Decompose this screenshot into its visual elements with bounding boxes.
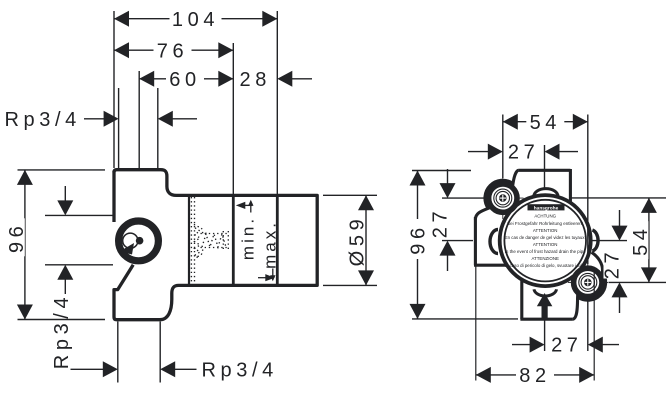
- dim 28 arrow right: [277, 71, 312, 87]
- hansgrohe label text: [534, 205, 559, 211]
- dim 27L text: [429, 207, 451, 238]
- dim 27B text: [551, 335, 582, 357]
- dim 27R text: [602, 248, 624, 279]
- max depth division line: [276, 197, 279, 285]
- svg-text:Rp3/4: Rp3/4: [5, 109, 81, 131]
- max down arrow: [270, 269, 275, 282]
- dim 54 top ext right: [587, 115, 589, 265]
- dim 104 line: [114, 11, 277, 27]
- port extension line bottom left: [117, 322, 119, 383]
- hidden spindle end bar left: [222, 231, 224, 250]
- dim 82 text: [516, 365, 554, 387]
- dim 82 ext left: [475, 266, 477, 381]
- svg-text:27: 27: [508, 142, 539, 164]
- left view body outline: [114, 170, 317, 320]
- hansgrohe label plate: [528, 204, 565, 210]
- orientation arrow: [538, 294, 551, 318]
- front body lower-left stub: [474, 264, 508, 267]
- port dim arrow lower: [57, 265, 73, 294]
- Rp3/4 left leader arrow: [71, 361, 118, 377]
- hidden spindle top rail: [201, 233, 228, 235]
- dim 27 top text: [508, 142, 539, 164]
- cover outer circle: [500, 195, 591, 286]
- dim 27B ext left: [544, 321, 546, 352]
- svg-text:96: 96: [407, 223, 429, 254]
- dim 27B ext right: [587, 301, 589, 351]
- dim O59 extension line top: [323, 194, 377, 196]
- front body top edge: [519, 169, 571, 172]
- svg-text:27: 27: [429, 207, 451, 238]
- right port crescent: [592, 230, 598, 251]
- dim 54 top text: [526, 112, 564, 134]
- max arrow: [258, 274, 275, 281]
- dim 54R text: [630, 221, 652, 259]
- svg-text:76: 76: [157, 40, 188, 62]
- valve spindle boss ring: [119, 221, 159, 261]
- hidden spindle end bar right: [227, 231, 229, 250]
- svg-text:96: 96: [6, 222, 28, 253]
- front body left edge: [474, 217, 477, 265]
- svg-text:104: 104: [172, 9, 219, 31]
- svg-text:54: 54: [630, 224, 652, 255]
- left port crescent: [490, 230, 498, 254]
- dim O59 extension line bottom: [323, 284, 377, 286]
- svg-text:ACHTUNG: ACHTUNG: [534, 214, 556, 219]
- dim 82 ext right: [593, 268, 595, 381]
- svg-text:Ø59: Ø59: [347, 215, 369, 267]
- svg-text:En cas de danger de gel videz: En cas de danger de gel videz les tuyaux…: [505, 235, 586, 240]
- svg-text:54: 54: [530, 112, 561, 134]
- port dim arrow upper: [57, 186, 73, 215]
- Rp3/4 top label: [5, 109, 81, 131]
- dotted plaster line a: [190, 197, 192, 284]
- dim 27L ext mid: [442, 240, 473, 242]
- hidden spindle thread zigzag: [202, 234, 226, 247]
- dim 96 extension line bottom: [18, 319, 106, 321]
- max label: [260, 220, 279, 269]
- port extension line top right: [157, 88, 159, 168]
- dim O59 line: [358, 195, 374, 285]
- hidden spindle lower hook: [198, 248, 203, 257]
- svg-text:ATTENZIONE: ATTENZIONE: [531, 256, 559, 261]
- dim 54 top ext left: [502, 115, 504, 179]
- dim 104 text: [170, 9, 222, 31]
- dim 96f line: [410, 171, 426, 319]
- port extension line top left: [118, 88, 120, 168]
- dim O59 text: [347, 215, 369, 267]
- dim 104 extension line right: [276, 11, 278, 195]
- dotted plaster line b: [194, 197, 196, 284]
- svg-text:82: 82: [519, 365, 550, 387]
- dim 27R arrow top: [612, 210, 628, 241]
- front body top-right stub: [569, 169, 572, 204]
- svg-text:60: 60: [169, 69, 200, 91]
- screw boss crosshair top-left: [483, 178, 524, 220]
- dim 54R ext bottom: [609, 281, 666, 283]
- min up arrow: [248, 200, 253, 213]
- min label: [238, 216, 257, 260]
- dim 54 top line: [503, 114, 588, 130]
- Rp3/4 top counter arrow: [158, 111, 197, 127]
- dim 27R arrow bottom: [612, 282, 628, 313]
- front body lower-left vertical stub: [520, 280, 523, 320]
- Rp3/4 top leader arrow: [84, 111, 119, 127]
- min depth division line: [232, 197, 235, 285]
- dim 60 extension line left: [138, 71, 140, 168]
- front body top-left corner wrap: [475, 170, 518, 219]
- Rp3/4 left label: [51, 293, 73, 369]
- dim 96f ext top: [412, 170, 471, 172]
- svg-text:min.: min.: [238, 216, 257, 260]
- svg-text:ATTENTION: ATTENTION: [533, 242, 558, 247]
- valve spindle inner circle: [123, 233, 138, 248]
- hidden spindle bottom rail: [201, 247, 228, 249]
- dim 82 line: [476, 367, 594, 383]
- port extension line mid lower: [45, 264, 113, 266]
- hidden spindle upper hook: [198, 227, 203, 234]
- dim 27R ext mid: [592, 240, 627, 242]
- port extension line bottom right: [159, 322, 161, 383]
- svg-text:In caso di pericolo di gelo, s: In caso di pericolo di gelo, svuotare i …: [505, 263, 586, 268]
- dim 76 extension line right: [232, 43, 234, 194]
- valve spindle tip dot: [136, 237, 144, 245]
- dim 27B arrow right: [588, 337, 619, 353]
- dim 96 extension line top: [18, 169, 106, 171]
- dim 96 line: [17, 170, 33, 320]
- dim 28 text: [239, 69, 270, 91]
- svg-text:In the event of frost hazard d: In the event of frost hazard drain the p…: [505, 249, 587, 254]
- dim 104 extension line left: [113, 11, 115, 168]
- dim 54R ext top: [571, 197, 666, 199]
- Rp3/4 bottom counter arrow: [160, 361, 196, 377]
- min arrow: [236, 202, 253, 209]
- frost warning text block: [505, 214, 587, 268]
- dim 76 text: [154, 40, 192, 62]
- screw boss U1 top-left: [489, 184, 517, 212]
- svg-text:max.: max.: [260, 220, 279, 269]
- dim 76 line: [114, 42, 233, 58]
- dim 27 top arrow left: [468, 144, 503, 160]
- hidden spindle coil zigzag: [195, 224, 201, 259]
- dim 27L ext top: [442, 197, 484, 199]
- svg-text:Rp3/4: Rp3/4: [51, 293, 73, 369]
- dim 27L arrow top: [440, 169, 456, 198]
- svg-text:Bei Frostgefahr Rohrleitung en: Bei Frostgefahr Rohrleitung entleeren!: [507, 221, 583, 226]
- body front face line: [188, 197, 190, 285]
- front body bottom-right corner wrap: [572, 252, 605, 319]
- Rp3/4 bottom label: [202, 359, 278, 381]
- svg-text:Rp3/4: Rp3/4: [202, 359, 278, 381]
- dim 54R line: [641, 198, 657, 283]
- svg-text:hansgrohe: hansgrohe: [534, 205, 559, 211]
- dim 27 top ext mid: [544, 145, 546, 189]
- valve spindle lever wedge: [120, 243, 135, 255]
- svg-text:ATTENTION: ATTENTION: [533, 228, 558, 233]
- dim 27L arrow bottom: [440, 241, 456, 271]
- bottom port crescent: [534, 289, 557, 296]
- dim 60 text: [166, 69, 204, 91]
- left view flange left edge upper segment: [112, 171, 115, 222]
- port extension line mid upper: [45, 214, 113, 216]
- screw boss U2 bottom-right: [574, 268, 602, 296]
- cover inner circle: [504, 200, 586, 282]
- top port crescent: [534, 189, 558, 197]
- dim 96 text: [6, 218, 28, 256]
- front body bottom edge: [520, 318, 572, 321]
- dim 60 line: [139, 71, 233, 87]
- dim 96f ext bottom: [412, 318, 518, 320]
- screw boss crosshair bottom-right: [568, 262, 608, 303]
- dim 27B arrow left: [512, 337, 545, 353]
- svg-text:27: 27: [602, 248, 624, 279]
- dim 27 top arrow right: [545, 144, 579, 160]
- dim 96f text: [407, 219, 429, 259]
- svg-text:27: 27: [551, 335, 582, 357]
- svg-text:28: 28: [239, 69, 270, 91]
